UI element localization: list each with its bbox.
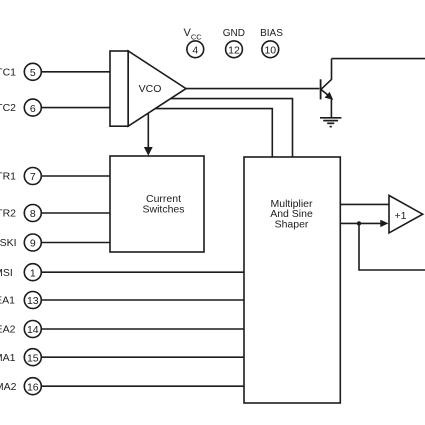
wire collector to right edge [332, 58, 425, 60]
svg-text:4: 4 [192, 45, 198, 57]
svg-text:16: 16 [27, 381, 39, 393]
wire TC2 to VCO [41, 107, 110, 109]
pin WAVEA2 (14) [24, 321, 41, 338]
pin AMSI (1) [24, 264, 41, 281]
arrowhead emitter [325, 92, 334, 100]
svg-text:12: 12 [228, 45, 240, 57]
pin SYMA2 (16) [24, 378, 41, 395]
svg-text:5: 5 [30, 67, 36, 79]
pin SYMA1 (15) [24, 349, 41, 366]
wire WAVEA2 to Multiplier [41, 328, 244, 330]
pin GND (12) [226, 41, 243, 58]
pin TC2 (6) [24, 99, 41, 116]
svg-text:MSI: MSI [0, 267, 13, 279]
svg-text:GND: GND [223, 28, 245, 39]
arrowhead into +1 [380, 220, 388, 227]
wire FSKI to Current Switches [41, 242, 110, 244]
op-amp VCO triangle [128, 51, 186, 126]
wire TR2 to Current Switches [41, 212, 110, 214]
op-amp +1 buffer [389, 195, 423, 233]
transistor Q1 collector [321, 59, 331, 90]
pin TR2 (8) [24, 205, 41, 222]
svg-text:1: 1 [30, 267, 36, 279]
wire emitter to ground [330, 99, 332, 118]
svg-text:15: 15 [27, 352, 39, 364]
wire VCO out2 to Multiplier [171, 99, 293, 157]
pin VCC (4) [187, 41, 204, 58]
box Current Switches [110, 156, 204, 252]
wire VCO apex to transistor base [186, 88, 319, 90]
wire VCO to Current Switches (arrow) [147, 114, 149, 149]
pin FSKI (9) [24, 234, 41, 251]
pin TC1 (5) [24, 63, 41, 80]
transistor Q1 emitter [321, 90, 330, 97]
svg-text:+1: +1 [395, 210, 407, 222]
svg-text:TR1: TR1 [0, 171, 16, 183]
svg-text:13: 13 [27, 295, 39, 307]
pin BIAS (10) [262, 41, 279, 58]
svg-text:Switches: Switches [142, 203, 184, 215]
svg-text:SKI: SKI [0, 237, 17, 249]
svg-text:MA1: MA1 [0, 352, 16, 364]
wire Multiplier out B (arrow into +1) [340, 222, 381, 224]
wire SYMA1 to Multiplier [41, 356, 244, 358]
svg-text:MA2: MA2 [0, 381, 17, 393]
svg-text:EA1: EA1 [0, 295, 15, 307]
wire SYMA2 to Multiplier [41, 385, 244, 387]
svg-text:10: 10 [264, 45, 276, 57]
wire TC1 to VCO [41, 71, 110, 73]
arrowhead VCO to Current Switches [144, 147, 153, 156]
pin TR1 (7) [24, 168, 41, 185]
svg-text:7: 7 [30, 171, 36, 183]
svg-text:14: 14 [27, 324, 39, 336]
svg-text:9: 9 [30, 238, 36, 250]
wire Multiplier out A to +1 [340, 203, 389, 205]
wire junction down and right to edge [359, 223, 425, 270]
VCO input bar [110, 51, 128, 126]
wire AMSI to Multiplier [41, 271, 244, 273]
svg-text:TC1: TC1 [0, 66, 16, 78]
ground [320, 118, 341, 127]
svg-text:BIAS: BIAS [260, 28, 283, 39]
wire VCO out3 to Multiplier [155, 109, 272, 157]
svg-text:TC2: TC2 [0, 102, 16, 114]
transistor Q1 base bar [320, 79, 322, 99]
box Multiplier And Sine Shaper [244, 157, 340, 403]
junction dot [357, 221, 361, 225]
svg-text:VCO: VCO [139, 83, 162, 95]
wire TR1 to Current Switches [41, 175, 110, 177]
svg-text:Shaper: Shaper [275, 218, 309, 230]
svg-text:EA2: EA2 [0, 324, 16, 336]
pin WAVEA1 (13) [24, 292, 41, 309]
svg-text:8: 8 [30, 208, 36, 220]
svg-text:6: 6 [30, 103, 36, 115]
wire WAVEA1 to Multiplier [41, 299, 244, 301]
svg-text:TR2: TR2 [0, 208, 16, 220]
